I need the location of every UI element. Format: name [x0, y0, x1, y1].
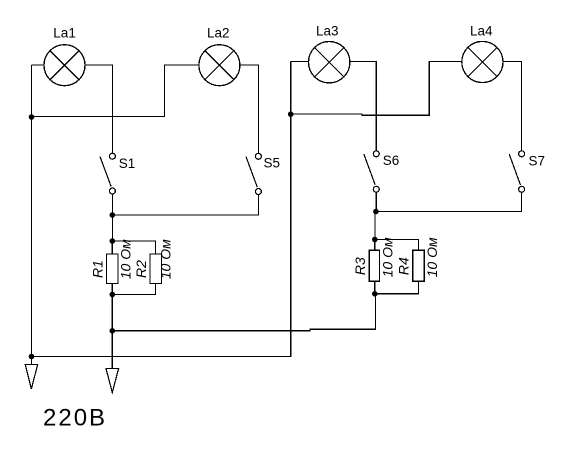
node A1 — [29, 115, 34, 120]
node E1 — [110, 328, 115, 333]
wire S1 to node B1 — [111, 194, 113, 215]
wire La3 right to S6 — [350, 62, 376, 151]
resistor R2 — [150, 254, 162, 284]
wire node E1 to source right — [111, 331, 113, 369]
node C1 — [110, 239, 115, 244]
node A2 — [29, 354, 34, 359]
wire node D1 to node E1 — [111, 295, 113, 331]
node B1 — [110, 213, 115, 218]
svg-text:R4: R4 — [395, 257, 411, 275]
wire R1 to node D1 — [111, 284, 113, 295]
node C2 — [372, 237, 377, 242]
svg-text:La1: La1 — [53, 26, 76, 41]
resistor R3 — [369, 250, 379, 281]
svg-text:10 Ом: 10 Ом — [424, 237, 440, 277]
svg-text:R2: R2 — [133, 260, 149, 278]
node B2 — [374, 209, 379, 214]
lamp La1 — [44, 45, 85, 86]
wire R3 to node D2 — [374, 281, 376, 294]
switch S7 — [509, 151, 524, 193]
svg-text:R1: R1 — [89, 260, 105, 278]
svg-text:S1: S1 — [119, 156, 136, 171]
svg-text:La3: La3 — [316, 23, 339, 38]
wire node B2 to node C2 — [374, 212, 376, 240]
wire R2 branch bottom — [112, 284, 155, 295]
svg-text:S6: S6 — [383, 153, 400, 168]
wire La2 right to S5 — [240, 65, 259, 153]
wire left rail circuit 1 — [31, 65, 33, 365]
lamp La2 — [199, 45, 240, 86]
svg-text:S5: S5 — [264, 156, 281, 171]
ground source terminal left — [25, 365, 37, 390]
svg-text:R3: R3 — [352, 257, 368, 275]
wire S6 to node B2 — [375, 192, 377, 211]
wire R4 branch top — [375, 240, 419, 251]
switch S1 — [100, 153, 115, 194]
svg-text:La2: La2 — [207, 26, 230, 41]
wire node E1 to R3R4 bottom — [112, 294, 375, 331]
switch S5 — [246, 153, 261, 194]
wire La3 left — [291, 61, 309, 63]
resistor R4 — [413, 250, 424, 281]
wire R2 branch top — [112, 241, 155, 254]
wire node C1 to R1 — [111, 241, 113, 254]
lamp La3 — [309, 42, 350, 83]
lamp La4 — [462, 41, 503, 82]
svg-text:10 Ом: 10 Ом — [380, 237, 396, 277]
wire node C2 to R3 — [374, 240, 376, 251]
wire bottom rail to circuit 2 — [32, 62, 291, 357]
switch S6 — [364, 151, 379, 193]
svg-text:La4: La4 — [470, 23, 493, 38]
node D1 — [110, 292, 115, 297]
wire R4 branch bottom — [375, 281, 419, 294]
resistor R1 — [107, 254, 119, 284]
node D2 — [372, 291, 377, 296]
node A3 — [288, 112, 293, 117]
svg-text:220В: 220В — [43, 405, 107, 432]
svg-text:10 Ом: 10 Ом — [118, 239, 134, 279]
wire La1 left — [32, 64, 45, 66]
ground source terminal right — [106, 369, 119, 393]
wire La4 right to S7 — [503, 62, 522, 151]
svg-text:10 Ом: 10 Ом — [157, 239, 173, 279]
wire La4 left to rail — [291, 62, 462, 116]
wire node B1 to node C1 — [111, 215, 113, 241]
wire node B2 to S7 — [376, 192, 522, 211]
svg-text:S7: S7 — [529, 154, 546, 169]
wire node B1 to S5 — [112, 195, 258, 216]
wire La2 left to rail — [32, 65, 199, 117]
wire La1 right to S1 — [85, 65, 113, 153]
